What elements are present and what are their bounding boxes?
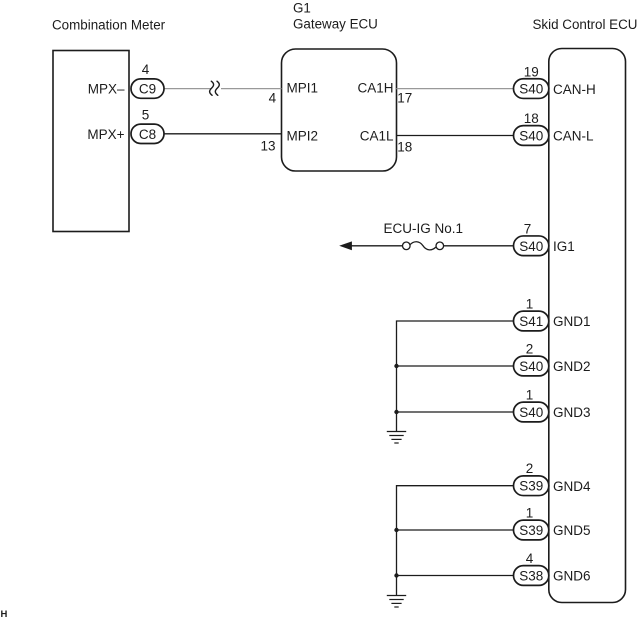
wire GND6 xyxy=(397,575,514,577)
wire CA1L to CAN-L xyxy=(396,135,513,137)
gateway ECU G1 box xyxy=(282,49,397,171)
svg-text:1: 1 xyxy=(526,388,534,403)
svg-text:C8: C8 xyxy=(139,127,156,142)
skid control ECU box xyxy=(549,49,626,603)
svg-text:S41: S41 xyxy=(519,314,543,329)
svg-text:Gateway ECU: Gateway ECU xyxy=(293,16,378,31)
svg-text:MPX+: MPX+ xyxy=(87,127,124,142)
svg-text:5: 5 xyxy=(142,108,150,123)
svg-text:MPX–: MPX– xyxy=(88,82,125,97)
svg-text:ECU-IG No.1: ECU-IG No.1 xyxy=(384,221,464,236)
wire GND3 xyxy=(397,411,514,413)
wire break symbol xyxy=(210,81,220,95)
wire fuse to IG1 xyxy=(444,245,514,247)
svg-text:4: 4 xyxy=(269,90,277,105)
svg-text:S38: S38 xyxy=(519,569,543,584)
svg-text:1: 1 xyxy=(526,297,534,312)
svg-text:19: 19 xyxy=(524,64,539,79)
svg-text:GND3: GND3 xyxy=(553,405,591,420)
svg-text:Skid Control ECU: Skid Control ECU xyxy=(533,17,638,32)
svg-text:IG1: IG1 xyxy=(553,239,575,254)
svg-text:C9: C9 xyxy=(139,82,156,97)
svg-text:Combination Meter: Combination Meter xyxy=(52,17,166,32)
arrow to ECU-IG No.1 xyxy=(339,241,352,250)
svg-text:2: 2 xyxy=(526,461,534,476)
svg-text:2: 2 xyxy=(526,342,534,357)
svg-text:18: 18 xyxy=(524,111,539,126)
connector S40 IG1 xyxy=(514,236,549,256)
svg-text:GND1: GND1 xyxy=(553,314,591,329)
ground symbol upper xyxy=(387,432,406,444)
combination meter box xyxy=(53,51,129,232)
svg-text:GND5: GND5 xyxy=(553,523,591,538)
svg-text:GND4: GND4 xyxy=(553,479,591,494)
svg-text:S39: S39 xyxy=(519,479,543,494)
junction GND6 xyxy=(394,573,398,577)
svg-text:13: 13 xyxy=(260,138,275,153)
connector S40 GND2 xyxy=(514,356,549,376)
svg-text:7: 7 xyxy=(524,222,532,237)
connector S39 GND5 xyxy=(514,520,549,540)
svg-text:1: 1 xyxy=(526,506,534,521)
svg-text:MPI2: MPI2 xyxy=(287,129,319,144)
svg-text:MPI1: MPI1 xyxy=(287,81,319,96)
wire MPX+ to MPI2 xyxy=(164,133,282,135)
svg-text:4: 4 xyxy=(142,62,150,77)
connector S40 CAN-L xyxy=(514,126,549,146)
junction GND3 xyxy=(394,410,398,414)
svg-text:S40: S40 xyxy=(519,405,543,420)
connector S41 GND1 xyxy=(514,311,549,331)
junction GND2 xyxy=(394,364,398,368)
svg-text:CA1H: CA1H xyxy=(357,81,393,96)
wire GND5 xyxy=(397,529,514,531)
svg-text:CA1L: CA1L xyxy=(360,129,394,144)
wire MPX- to MPI1 gray xyxy=(164,88,282,90)
connector S40 GND3 xyxy=(514,402,549,422)
svg-text:GND2: GND2 xyxy=(553,359,591,374)
svg-text:4: 4 xyxy=(526,551,534,566)
svg-text:G1: G1 xyxy=(293,0,311,15)
svg-text:S40: S40 xyxy=(519,82,543,97)
svg-text:S40: S40 xyxy=(519,359,543,374)
svg-text:18: 18 xyxy=(397,139,412,154)
svg-text:S39: S39 xyxy=(519,523,543,538)
connector S38 GND6 xyxy=(514,566,549,586)
svg-text:CAN-H: CAN-H xyxy=(553,82,596,97)
ground symbol lower xyxy=(387,596,406,608)
svg-text:17: 17 xyxy=(397,90,412,105)
connector S39 GND4 xyxy=(514,476,549,496)
svg-text:S40: S40 xyxy=(519,239,543,254)
wire CA1H to CAN-H gray xyxy=(396,88,513,90)
connector S40 CAN-H xyxy=(514,79,549,99)
svg-text:GND6: GND6 xyxy=(553,569,591,584)
svg-text:H: H xyxy=(1,609,8,619)
wire GND1 xyxy=(397,321,514,432)
wire GND2 xyxy=(397,365,514,367)
wire arrow to fuse xyxy=(351,245,403,247)
fuse symbol ECU-IG No.1 xyxy=(403,242,444,250)
junction GND5 xyxy=(394,528,398,532)
svg-text:CAN-L: CAN-L xyxy=(553,129,594,144)
connector C9 xyxy=(131,79,164,98)
wire GND4 xyxy=(397,486,514,596)
svg-text:S40: S40 xyxy=(519,129,543,144)
connector C8 xyxy=(131,124,164,143)
